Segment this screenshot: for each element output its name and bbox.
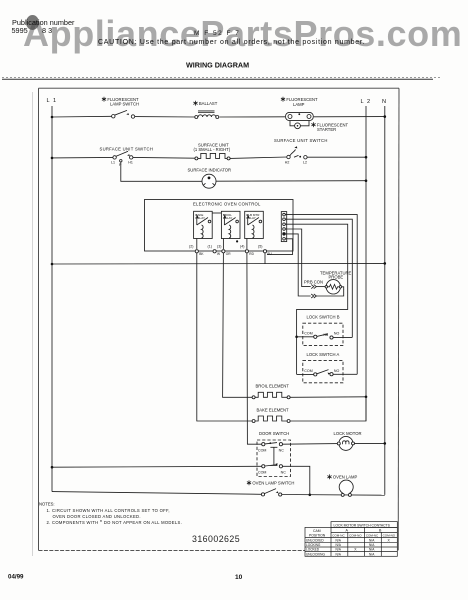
svg-text:NO: NO <box>334 331 340 335</box>
faint page edge line <box>32 92 34 556</box>
surface unit switch right <box>274 138 328 164</box>
relay K1 BAKE RELAY <box>194 211 213 249</box>
junction L2 x indicator <box>365 179 368 182</box>
svg-text:LOCKED: LOCKED <box>306 548 320 552</box>
wire pilot drop from P <box>121 162 202 181</box>
wire door NC to lock motor <box>283 443 339 446</box>
svg-text:2. COMPONENTS WITH * DO NOT A: 2. COMPONENTS WITH * DO NOT APPEAR ON AL… <box>47 520 183 526</box>
top rule lower solid <box>2 78 433 80</box>
wire right switch to L2 <box>307 156 366 158</box>
junction L1 x feed <box>51 263 54 266</box>
svg-text:N/A: N/A <box>336 552 342 556</box>
wire terminal4 drop to door switch <box>247 253 262 444</box>
notes block <box>39 502 182 526</box>
svg-text:N/A: N/A <box>336 548 342 552</box>
svg-text:CAUTION: Use the part number: CAUTION: Use the part number on all orde… <box>98 39 365 46</box>
junction lock feed x switch B com <box>295 336 298 339</box>
wire terminal3 drop to broil element <box>223 253 252 397</box>
top rule upper dotted <box>2 76 440 78</box>
wire terminal2 drop to bake element <box>197 253 252 421</box>
svg-text:OR: OR <box>226 252 231 256</box>
svg-text:LOCK SWITCH B: LOCK SWITCH B <box>307 315 340 320</box>
wire relay link <box>212 212 221 214</box>
svg-text:PROBE: PROBE <box>329 275 344 280</box>
svg-text:LOCK MOTOR SWITCH CONTACTS: LOCK MOTOR SWITCH CONTACTS <box>334 523 391 527</box>
junction N x fluorescent <box>384 115 387 118</box>
svg-text:M F 52 F 7: M F 52 F 7 <box>194 30 240 37</box>
wire door NC bottom to lamp wire <box>283 466 310 495</box>
lock motor M1 <box>334 431 362 451</box>
svg-text:COM-NC: COM-NC <box>332 534 345 538</box>
svg-text:BAKE ELEMENT: BAKE ELEMENT <box>257 407 290 412</box>
svg-text:OVEN LAMP SWITCH: OVEN LAMP SWITCH <box>252 481 294 486</box>
svg-text:BK: BK <box>199 252 204 256</box>
svg-text:04/99: 04/99 <box>8 574 24 581</box>
wire L2 bus <box>365 106 367 421</box>
terminal (4) <box>240 245 255 256</box>
svg-text:DOOR SWITCH: DOOR SWITCH <box>259 431 289 436</box>
relay K2 BROIL RELAY <box>221 211 240 249</box>
svg-text:NO: NO <box>334 369 340 373</box>
svg-text:LOCKING: LOCKING <box>306 543 321 547</box>
svg-text:H2: H2 <box>285 160 290 164</box>
svg-text:N/A: N/A <box>336 538 342 542</box>
svg-text:X: X <box>354 548 357 552</box>
svg-text:COM-NO: COM-NO <box>383 534 396 538</box>
svg-text:LOCK MOTOR: LOCK MOTOR <box>334 431 362 436</box>
svg-text:POSITION: POSITION <box>309 533 326 537</box>
svg-text:N/A: N/A <box>336 543 342 547</box>
svg-text:8 3: 8 3 <box>42 26 52 35</box>
svg-text:STARTER: STARTER <box>317 127 336 132</box>
svg-text:(1 SMALL - RIGHT): (1 SMALL - RIGHT) <box>194 147 231 152</box>
svg-text:(2): (2) <box>189 245 193 249</box>
svg-text:UNLOCKED: UNLOCKED <box>306 538 324 542</box>
relay K3 DLB RELAY <box>245 211 264 249</box>
junction L2 x broil <box>365 396 368 399</box>
svg-text:(3): (3) <box>217 245 221 249</box>
wire lock motor to N <box>355 442 385 444</box>
wire ballast to lamp segment <box>220 116 286 118</box>
terminal (2) <box>189 245 204 256</box>
wire terminal5 stub to feed <box>264 253 266 264</box>
diagram border frame <box>39 88 400 550</box>
svg-text:(5): (5) <box>258 245 262 249</box>
svg-text:L2: L2 <box>303 160 307 164</box>
fluorescent lamp FL1 <box>281 97 318 121</box>
junction coil return <box>236 240 238 242</box>
wire ballast to switch segment <box>134 116 195 118</box>
wire pin2 to lock switch B <box>285 219 352 337</box>
junction L1 x fluorescent <box>51 116 54 119</box>
terminal (3) <box>217 245 231 256</box>
svg-text:SURFACE UNIT SWITCH: SURFACE UNIT SWITCH <box>100 147 154 152</box>
svg-text:NC: NC <box>281 470 287 474</box>
svg-text:COM: COM <box>304 369 312 373</box>
lock switch A <box>297 352 358 383</box>
svg-text:COM: COM <box>258 470 266 474</box>
door switch <box>257 431 291 477</box>
svg-text:H1: H1 <box>128 161 133 165</box>
oven lamp LP1 <box>327 474 357 496</box>
svg-text:COM: COM <box>304 331 312 335</box>
svg-text:L 1: L 1 <box>47 98 58 104</box>
junction L1 x door com <box>51 466 54 469</box>
svg-text:N: N <box>382 99 386 105</box>
wire pin6 to terminal area <box>267 239 293 255</box>
svg-text:N/A: N/A <box>369 552 375 556</box>
terminal (1) <box>208 245 221 256</box>
svg-text:LAMP: LAMP <box>293 102 305 107</box>
junction L1 x surface <box>51 157 54 160</box>
svg-text:LOCK SWITCH A: LOCK SWITCH A <box>307 352 340 357</box>
oven lamp switch <box>247 480 295 496</box>
svg-text:NOTES:: NOTES: <box>39 502 55 507</box>
svg-text:A: A <box>346 529 349 533</box>
wire N bus <box>384 106 386 495</box>
surface element (1) <box>194 143 231 160</box>
dark smudge over publication number <box>26 15 39 30</box>
wire indicator to L2 <box>216 180 366 183</box>
svg-text:5995: 5995 <box>12 26 28 35</box>
wire broil to L2 <box>290 396 366 399</box>
wire L1 bus <box>51 106 53 492</box>
svg-text:1. CIRCUIT SHOWN WITH ALL CON: 1. CIRCUIT SHOWN WITH ALL CONTROLS SET T… <box>47 508 170 513</box>
wire pin1 to lock switch A <box>285 215 357 375</box>
wire switch to element <box>133 156 195 159</box>
svg-text:ELECTRONIC OVEN CONTROL: ELECTRONIC OVEN CONTROL <box>193 202 261 207</box>
svg-text:BROIL ELEMENT: BROIL ELEMENT <box>256 383 290 388</box>
junction N x lock motor <box>384 442 387 445</box>
wire fluorescent circuit left segment <box>52 115 112 118</box>
svg-text:COM-NO: COM-NO <box>349 534 362 538</box>
wire pin5 to probe return <box>285 234 310 296</box>
svg-text:UNLOCKING: UNLOCKING <box>306 552 325 556</box>
wire element to right switch <box>230 157 287 158</box>
svg-text:WIRING DIAGRAM: WIRING DIAGRAM <box>186 61 249 70</box>
svg-text:N/A: N/A <box>369 548 375 552</box>
svg-text:(4): (4) <box>240 245 244 249</box>
svg-text:PRB CON: PRB CON <box>304 280 323 285</box>
svg-text:SURFACE UNIT SWITCH: SURFACE UNIT SWITCH <box>274 138 328 143</box>
fluorescent starter S1 <box>290 121 349 132</box>
surface unit switch left <box>100 147 154 168</box>
svg-text:COM-NC: COM-NC <box>366 534 379 538</box>
junction lamp wire x door drop <box>309 494 312 497</box>
bake element <box>252 407 290 422</box>
junction N x feed <box>384 262 387 265</box>
wire L1 feed long horizontal <box>52 262 385 265</box>
wire door com long to L1 <box>52 465 262 468</box>
svg-text:316002625: 316002625 <box>192 534 240 544</box>
svg-text:W: W <box>217 252 220 256</box>
svg-text:LAMP SWITCH: LAMP SWITCH <box>110 102 139 107</box>
svg-text:BALLAST: BALLAST <box>199 101 218 106</box>
svg-text:NC: NC <box>279 448 285 452</box>
svg-text:RD: RD <box>249 252 254 256</box>
junction L2 x surface <box>365 156 368 159</box>
lock switch B <box>297 315 353 346</box>
svg-text:N/A: N/A <box>369 538 375 542</box>
svg-text:COM: COM <box>258 448 266 452</box>
svg-text:OVEN LAMP: OVEN LAMP <box>333 475 358 480</box>
svg-text:(1): (1) <box>208 245 212 249</box>
svg-text:X: X <box>388 538 391 542</box>
ballast B1 <box>193 101 218 119</box>
wire surface circuit left segment <box>52 156 113 159</box>
svg-text:OVEN DOOR CLOSED AND UNLOCKED.: OVEN DOOR CLOSED AND UNLOCKED. <box>53 514 141 519</box>
svg-text:SURFACE INDICATOR: SURFACE INDICATOR <box>188 168 232 173</box>
wire bake to L2 end <box>290 397 366 421</box>
wire oven lamp circuit <box>52 492 261 495</box>
wire pin3 to lock switch commons <box>285 224 347 374</box>
svg-text:AppliancePartsPros.com: AppliancePartsPros.com <box>23 13 462 54</box>
wire pin4 to probe <box>285 229 310 287</box>
svg-text:L 2: L 2 <box>361 99 372 105</box>
terminal (5) <box>258 245 273 256</box>
temperature probe RT1 <box>304 270 352 298</box>
electronic oven control box U1 <box>145 200 294 252</box>
svg-text:B: B <box>379 529 382 533</box>
svg-text:N/A: N/A <box>369 543 375 547</box>
lock motor switch contacts table <box>305 522 397 557</box>
connector J1 <box>281 212 286 242</box>
fluorescent lamp switch <box>102 97 139 118</box>
broil element <box>252 383 290 398</box>
surface indicator lamp <box>188 168 232 189</box>
wire lamp to N segment <box>314 116 385 118</box>
svg-text:10: 10 <box>235 574 243 581</box>
svg-text:L1: L1 <box>111 161 115 165</box>
